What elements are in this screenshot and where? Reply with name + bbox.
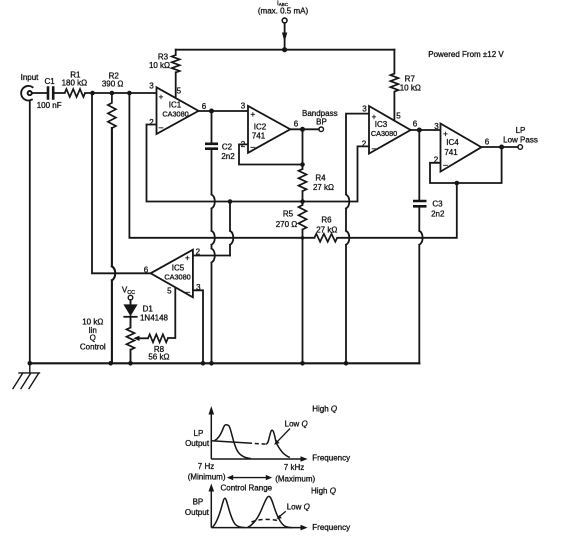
svg-text:D1: D1	[143, 305, 154, 314]
svg-text:180 kΩ: 180 kΩ	[62, 79, 88, 88]
svg-text:High Q: High Q	[312, 404, 337, 413]
svg-text:2n2: 2n2	[431, 210, 445, 219]
svg-text:(Minimum): (Minimum)	[188, 473, 226, 482]
svg-text:270 Ω: 270 Ω	[276, 220, 298, 229]
svg-text:LP: LP	[516, 126, 526, 135]
svg-text:IC4: IC4	[446, 138, 459, 147]
svg-text:56 kΩ: 56 kΩ	[148, 353, 169, 362]
svg-text:27 kΩ: 27 kΩ	[316, 226, 337, 235]
svg-text:Control: Control	[80, 342, 106, 351]
svg-text:IC1: IC1	[169, 101, 182, 110]
svg-text:–: –	[372, 144, 377, 153]
svg-text:Low Q: Low Q	[285, 420, 308, 429]
svg-text:10 kΩ: 10 kΩ	[149, 61, 170, 70]
svg-text:6: 6	[202, 102, 207, 111]
svg-text:390 Ω: 390 Ω	[102, 80, 124, 89]
svg-text:R4: R4	[315, 174, 326, 183]
svg-text:1N4148: 1N4148	[140, 314, 169, 323]
svg-text:100 nF: 100 nF	[37, 101, 62, 110]
svg-text:High Q: High Q	[311, 487, 336, 496]
svg-text:Low Pass: Low Pass	[503, 136, 538, 145]
svg-text:5: 5	[167, 287, 172, 296]
svg-text:Frequency: Frequency	[312, 453, 350, 462]
svg-text:(Maximum): (Maximum)	[275, 474, 315, 483]
svg-text:3: 3	[434, 122, 439, 131]
svg-text:2: 2	[241, 140, 246, 149]
svg-text:3: 3	[241, 102, 246, 111]
svg-text:+: +	[185, 254, 190, 263]
svg-text:10 kΩ: 10 kΩ	[400, 84, 421, 93]
svg-text:Control Range: Control Range	[221, 484, 273, 493]
svg-text:2: 2	[196, 248, 201, 257]
svg-text:CA3080: CA3080	[162, 110, 188, 119]
svg-text:C1: C1	[44, 77, 55, 86]
svg-text:–: –	[443, 161, 448, 170]
svg-text:Output: Output	[185, 439, 210, 448]
svg-text:IC2: IC2	[254, 123, 267, 132]
svg-text:7 kHz: 7 kHz	[284, 463, 304, 472]
svg-text:27 kΩ: 27 kΩ	[313, 183, 334, 192]
svg-text:BP: BP	[316, 117, 327, 126]
svg-text:5: 5	[396, 112, 401, 121]
svg-text:3: 3	[196, 283, 201, 292]
svg-text:Input: Input	[21, 73, 40, 82]
svg-text:CA3080: CA3080	[164, 273, 190, 282]
svg-text:Low Q: Low Q	[287, 503, 310, 512]
svg-text:LP: LP	[194, 429, 204, 438]
svg-text:IC5: IC5	[172, 264, 185, 273]
svg-text:Powered From ±12 V: Powered From ±12 V	[428, 50, 504, 59]
svg-text:7 Hz: 7 Hz	[198, 462, 214, 471]
svg-text:C3: C3	[432, 200, 443, 209]
svg-text:(max. 0.5 mA): (max. 0.5 mA)	[258, 7, 309, 16]
svg-text:3: 3	[149, 82, 154, 91]
svg-text:CA3080: CA3080	[371, 129, 397, 138]
svg-text:–: –	[159, 123, 164, 132]
svg-text:–: –	[251, 143, 256, 152]
svg-text:+: +	[159, 93, 164, 102]
svg-text:2n2: 2n2	[221, 152, 235, 161]
svg-text:6: 6	[413, 120, 418, 129]
svg-text:IC3: IC3	[375, 120, 388, 129]
svg-text:BP: BP	[193, 498, 204, 507]
svg-text:741: 741	[252, 132, 266, 141]
svg-text:3: 3	[362, 105, 367, 114]
svg-text:5: 5	[177, 87, 182, 96]
svg-text:6: 6	[294, 120, 299, 129]
svg-text:2: 2	[362, 140, 367, 149]
svg-text:6: 6	[144, 266, 149, 275]
svg-text:Output: Output	[185, 508, 210, 517]
svg-text:6: 6	[485, 138, 490, 147]
svg-text:2: 2	[149, 118, 154, 127]
svg-text:Frequency: Frequency	[312, 523, 350, 532]
svg-text:741: 741	[444, 148, 458, 157]
svg-text:2: 2	[434, 155, 439, 164]
svg-text:Q: Q	[90, 333, 96, 342]
svg-text:R5: R5	[283, 210, 294, 219]
svg-text:R7: R7	[405, 75, 416, 84]
svg-text:–: –	[186, 288, 191, 297]
svg-text:R6: R6	[321, 216, 332, 225]
svg-text:C2: C2	[222, 143, 233, 152]
svg-text:+: +	[250, 110, 255, 119]
